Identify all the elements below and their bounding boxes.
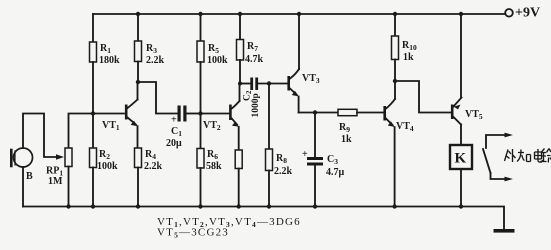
node A (VT1 base bias node) — [91, 111, 95, 115]
svg-text:58k: 58k — [206, 161, 222, 172]
wire VT4 collector to VT5 base — [395, 81, 451, 113]
transistor VT2 — [203, 84, 240, 150]
wire VT3 emitter to R9 — [299, 112, 338, 114]
node relay bottom — [459, 204, 463, 208]
svg-text:+: + — [171, 115, 177, 126]
wire R9 to VT4 base — [357, 112, 384, 114]
resistor R4 — [135, 148, 163, 207]
node R7 top — [238, 12, 242, 16]
node R10 top — [393, 12, 397, 16]
relay contact blade — [483, 149, 491, 173]
node VT3 base / R8 top — [267, 81, 271, 85]
node RP1 bottom — [66, 204, 70, 208]
node VT3 collector top — [297, 12, 301, 16]
wire C2 to VT3 base node — [258, 83, 288, 85]
wire ground rail — [23, 207, 504, 230]
ground — [494, 229, 515, 233]
svg-text:2.2k: 2.2k — [146, 55, 165, 66]
svg-text:+9V: +9V — [515, 6, 540, 21]
resistor R2 — [90, 114, 119, 207]
svg-text:100k: 100k — [97, 161, 118, 172]
node VT2 emitter resistor bottom — [237, 204, 241, 208]
svg-text:K: K — [455, 151, 467, 167]
svg-text:1k: 1k — [341, 134, 352, 145]
node VT4 emitter bottom — [392, 204, 396, 208]
node VT5 emitter top — [459, 12, 463, 16]
svg-text:2.2k: 2.2k — [274, 166, 293, 177]
capacitor C2 — [243, 78, 262, 118]
transistor VT5 (PNP) — [451, 14, 483, 145]
resistor R5 — [197, 14, 228, 114]
resistor R1 — [90, 14, 121, 114]
node VT1 collector / R3 bottom — [136, 80, 140, 84]
wire mic top to RP1 wiper — [23, 114, 56, 158]
potentiometer RP1 — [46, 148, 72, 207]
relay contact lower lead with arrow — [491, 173, 506, 179]
node R2 bottom — [91, 204, 95, 208]
resistor R3 — [135, 14, 165, 82]
wire node A to VT1 base — [93, 113, 124, 115]
svg-text:1M: 1M — [48, 176, 63, 187]
microphone B — [11, 148, 33, 182]
relay K — [450, 145, 472, 207]
node VT2 base bias — [198, 111, 202, 115]
label external bell 外加电铃 (drawn strokes) — [505, 149, 551, 163]
transistor VT3 — [287, 14, 320, 113]
resistor R9 — [338, 109, 357, 145]
wire node A to RP1 top — [69, 114, 94, 149]
transistor VT4 — [383, 81, 414, 207]
svg-text:20μ: 20μ — [166, 138, 182, 149]
resistor VT2 emitter — [235, 150, 242, 207]
wire top +9V rail — [93, 13, 505, 15]
node VT4 collector / R10 bottom — [393, 79, 397, 83]
wiper arrowhead into RP1 — [56, 154, 64, 160]
wire mic bottom to ground rail — [22, 167, 24, 207]
wire C1 to VT2 base node — [187, 113, 201, 115]
wire VT2 base — [201, 113, 230, 115]
resistor R7 — [237, 14, 264, 84]
resistor R6 — [197, 114, 222, 207]
terminal +9V — [505, 9, 513, 17]
node R6 bottom — [198, 204, 202, 208]
node C3 bottom — [313, 204, 317, 208]
node R5 top — [198, 12, 202, 16]
node R4 bottom — [136, 204, 140, 208]
svg-text:1k: 1k — [403, 52, 414, 63]
node R3 top — [136, 12, 140, 16]
svg-text:4.7μ: 4.7μ — [326, 167, 345, 178]
transistor VT1 — [102, 82, 138, 148]
svg-text:B: B — [26, 171, 33, 182]
svg-text:2.2k: 2.2k — [144, 161, 163, 172]
capacitor C3 — [302, 113, 345, 207]
svg-text:VT5—3CG23: VT5—3CG23 — [157, 227, 229, 240]
wire VT1 collector to C1 — [138, 82, 178, 114]
node R7 bottom / VT2 collector — [238, 82, 242, 86]
resistor R10 — [392, 14, 417, 81]
svg-text:100k: 100k — [207, 55, 228, 66]
svg-text:1000p: 1000p — [251, 93, 261, 117]
wire VT2 collector to C2 — [240, 83, 251, 85]
svg-text:180k: 180k — [99, 55, 120, 66]
svg-text:4.7k: 4.7k — [245, 54, 264, 65]
node C3 top — [313, 110, 317, 114]
node R8 bottom — [267, 204, 271, 208]
relay contact upper lead with arrow — [486, 135, 505, 148]
capacitor C1 — [166, 106, 187, 150]
resistor R8 — [266, 84, 293, 207]
svg-text:+: + — [302, 149, 308, 160]
